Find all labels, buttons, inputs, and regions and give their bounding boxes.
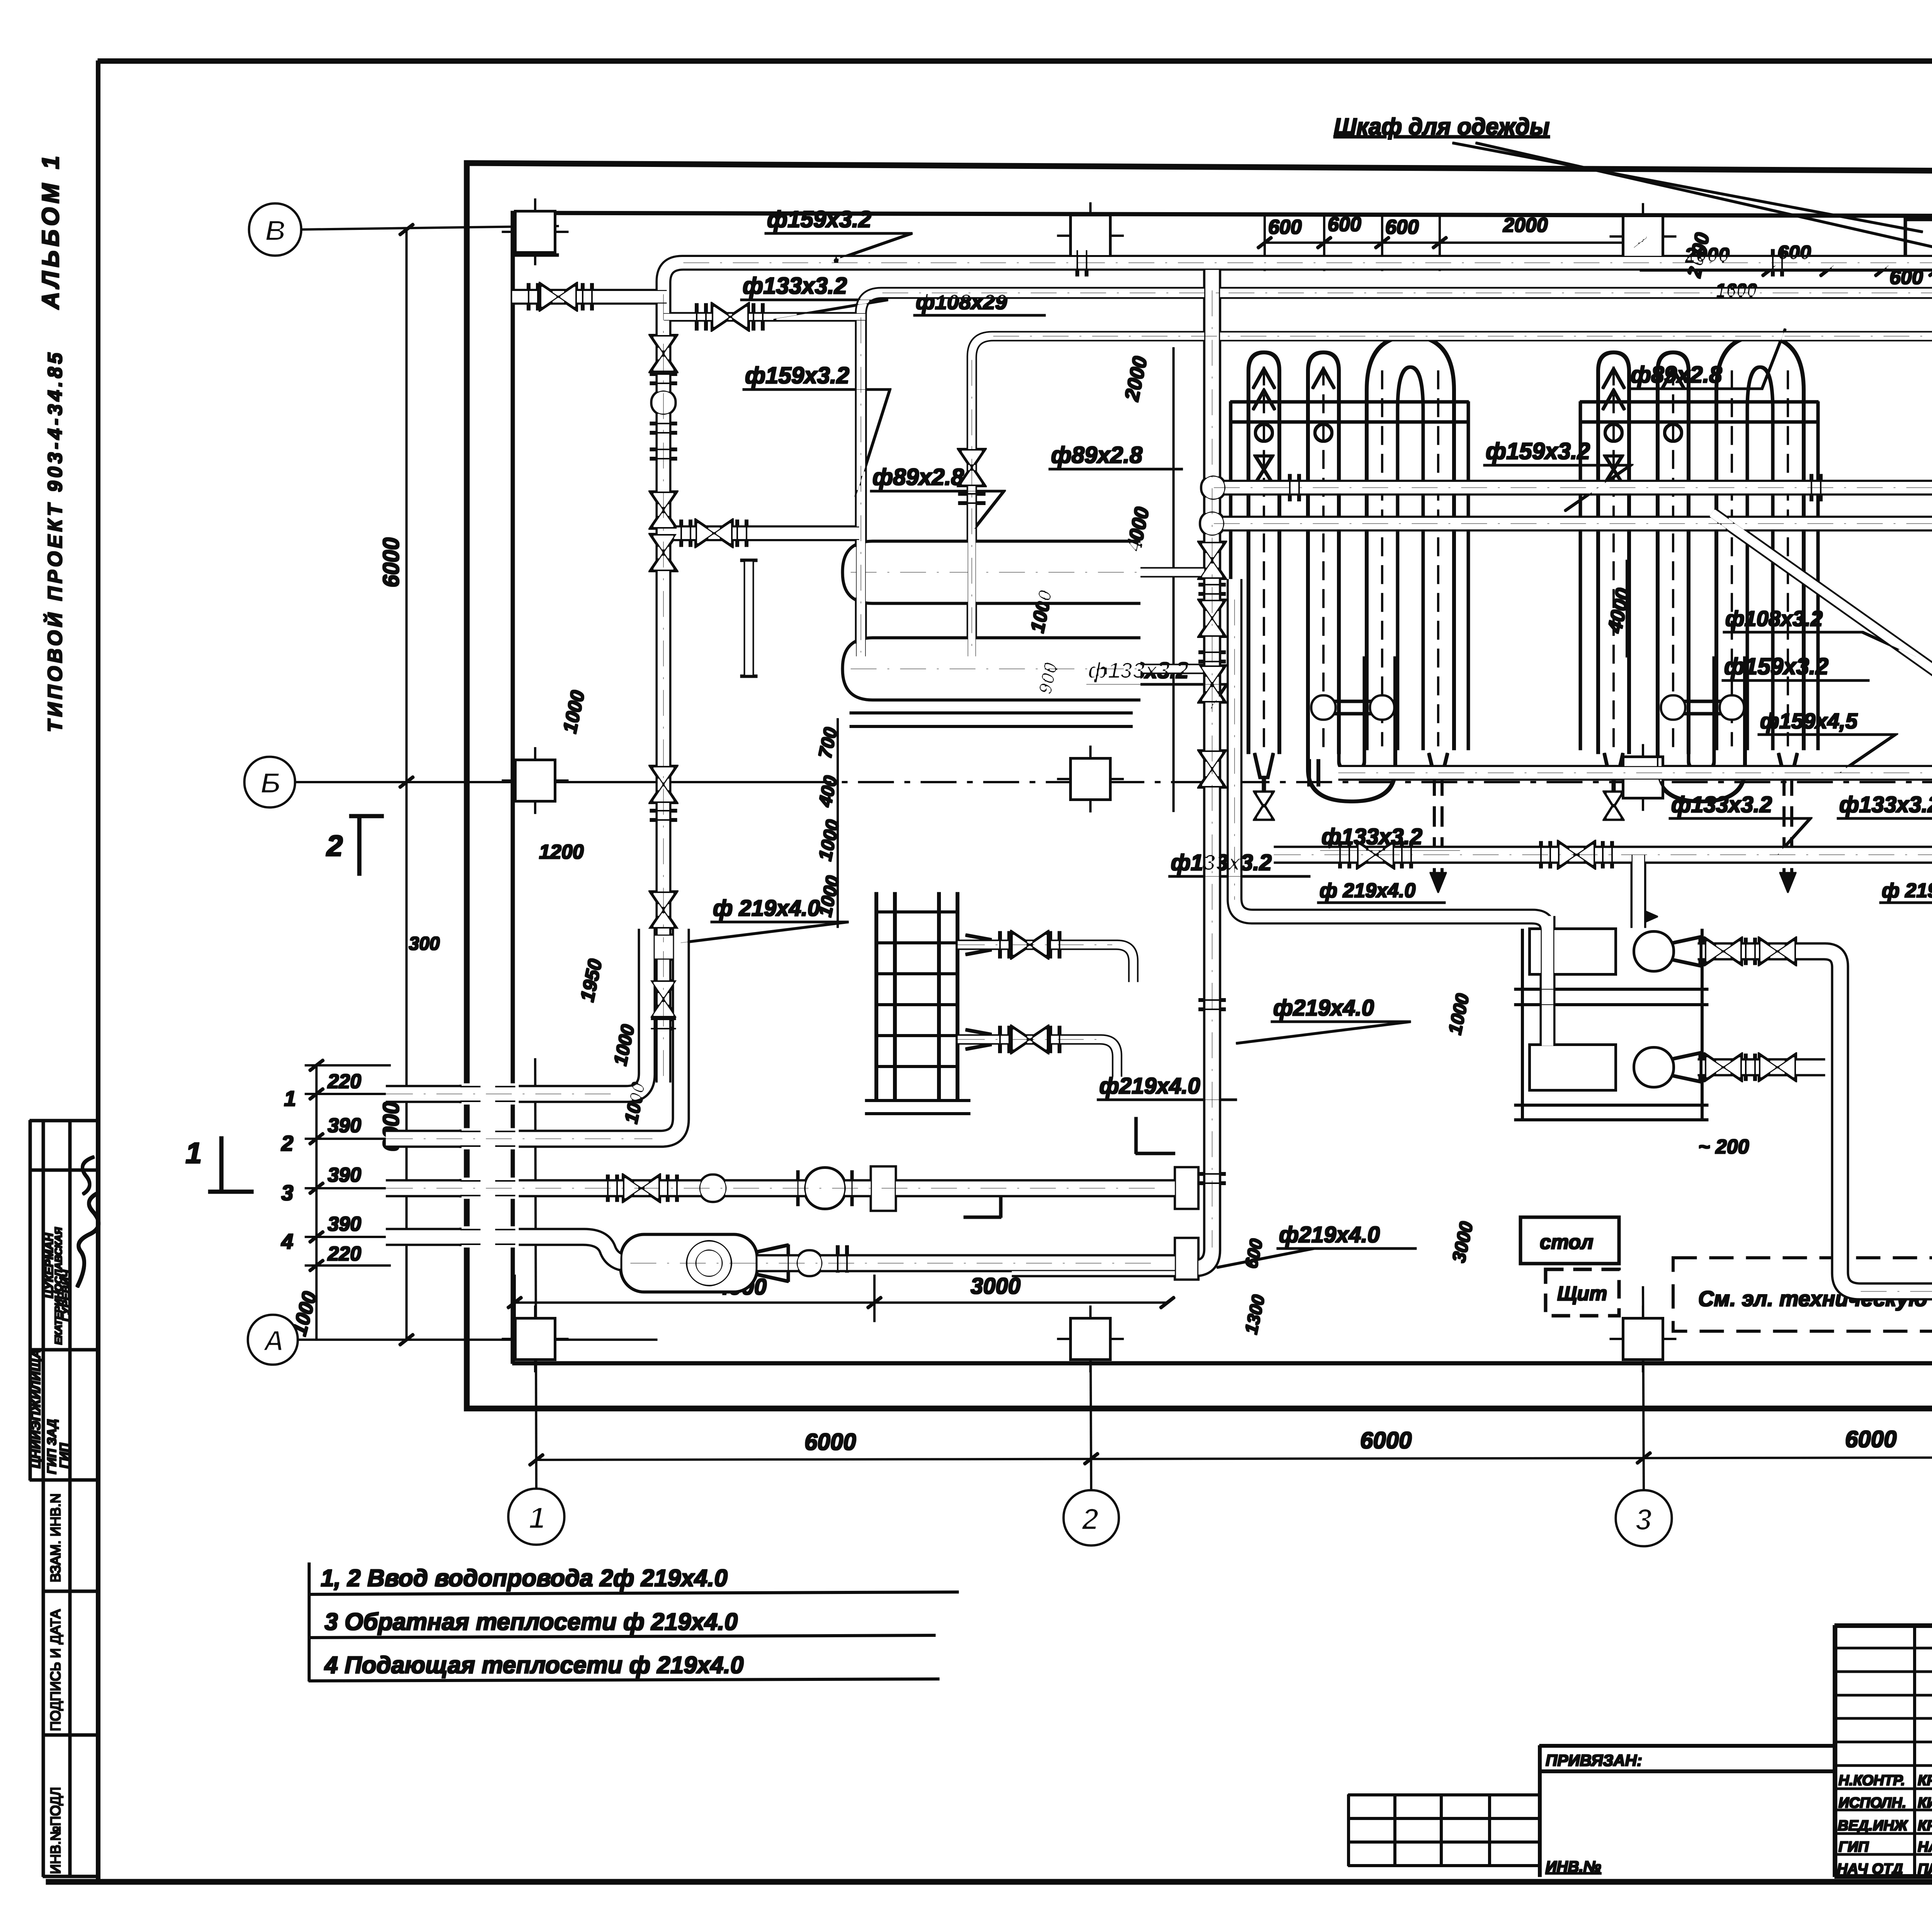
svg-text:600: 600	[1385, 216, 1419, 238]
svg-text:Н.КОНТР.: Н.КОНТР.	[1838, 1772, 1905, 1789]
pipe: shell connector 2	[1140, 664, 1207, 674]
svg-text:ГИП: ГИП	[57, 1442, 71, 1468]
section mark 2 top	[350, 815, 383, 875]
svg-text:ф159х3.2: ф159х3.2	[1724, 653, 1828, 679]
pipe: f108 riser + run 2 + right descent	[861, 293, 1932, 657]
svg-text:ГИП ЗАД: ГИП ЗАД	[45, 1419, 59, 1474]
pipe: f89 riser + run 3 + right descent	[972, 336, 1932, 657]
svg-text:ПОДПИСЬ И ДАТА: ПОДПИСЬ И ДАТА	[48, 1609, 63, 1731]
heater shell 1	[843, 542, 1140, 603]
svg-text:ф159х4,5: ф159х4,5	[1760, 709, 1858, 733]
svg-text:6000: 6000	[1845, 1426, 1896, 1452]
pipe: branch 820	[663, 313, 865, 321]
wall crossing dashes on entry rows	[460, 1084, 522, 1247]
axis circle 1	[509, 1489, 564, 1544]
svg-text:ф89х2.8: ф89х2.8	[872, 464, 964, 490]
svg-text:1: 1	[529, 1501, 545, 1535]
small left table	[1349, 1795, 1540, 1866]
svg-text:4: 4	[281, 1229, 293, 1254]
column A2	[1058, 1306, 1123, 1372]
heat exchanger bank 2	[1580, 336, 1818, 893]
svg-text:ПЛАТОНОВ: ПЛАТОНОВ	[1918, 1861, 1932, 1877]
svg-text:3: 3	[1635, 1502, 1652, 1536]
pipe: entry row 2	[386, 929, 681, 1139]
svg-text:3000: 3000	[971, 1274, 1020, 1299]
svg-text:2000: 2000	[1503, 214, 1548, 236]
svg-text:ИНВ.№: ИНВ.№	[1546, 1858, 1601, 1875]
svg-text:АЛЬБОМ 1: АЛЬБОМ 1	[37, 152, 64, 310]
axis circle V	[250, 204, 301, 255]
svg-text:390: 390	[328, 1213, 361, 1235]
pipe: diagonal	[1713, 513, 1932, 797]
svg-text:ф159х3.2: ф159х3.2	[745, 362, 849, 388]
svg-text:220: 220	[327, 1243, 361, 1265]
pipe: pump row 2	[1698, 1059, 1825, 1076]
sidebar stamp table frame	[30, 1121, 98, 1876]
svg-text:ф133х3.2: ф133х3.2	[1839, 792, 1932, 817]
svg-text:ф219х4.0: ф219х4.0	[1099, 1073, 1200, 1099]
svg-text:1: 1	[284, 1086, 296, 1111]
svg-text:ф219х4.0: ф219х4.0	[1279, 1222, 1380, 1247]
column B3	[1610, 745, 1676, 810]
svg-text:ПРИВЯЗАН:: ПРИВЯЗАН:	[1546, 1751, 1642, 1769]
wardrobe cabinet 1	[1905, 219, 1932, 261]
corner marks	[964, 1118, 1175, 1217]
svg-text:ф133х3.2: ф133х3.2	[1671, 792, 1772, 817]
svg-text:3 Обратная теплосети ф 219х4: 3 Обратная теплосети ф 219х4.0	[325, 1609, 738, 1635]
svg-text:ф219х4.0: ф219х4.0	[1273, 995, 1374, 1021]
svg-text:600: 600	[1777, 242, 1811, 264]
svg-text:2: 2	[326, 830, 343, 862]
dim 2000 600x3 top right row	[1640, 270, 1932, 271]
axis circle 3	[1616, 1491, 1671, 1546]
svg-text:ф159х3.2: ф159х3.2	[1486, 438, 1590, 464]
svg-text:КРУТИКОВА: КРУТИКОВА	[1918, 1818, 1932, 1834]
wardrobe leaders	[1453, 143, 1932, 255]
svg-text:В: В	[265, 214, 286, 247]
svg-text:300: 300	[409, 934, 440, 954]
pipe: mid run 2	[1213, 516, 1932, 531]
svg-text:КРУТИКОВА: КРУТИКОВА	[1918, 1772, 1932, 1789]
section mark 1 bottom-left	[209, 1137, 253, 1193]
axis line A	[297, 1339, 657, 1340]
pipe: run 2212 + right stack	[1274, 855, 1932, 1153]
pump 1 volute	[1634, 932, 1673, 971]
svg-text:стол: стол	[1540, 1231, 1594, 1254]
svg-text:600: 600	[1889, 266, 1923, 289]
svg-text:ф133х3.2: ф133х3.2	[1321, 824, 1422, 849]
column A1	[502, 1306, 568, 1372]
svg-text:ф 219х4.0: ф 219х4.0	[713, 896, 820, 921]
svg-text:ф133х3.2: ф133х3.2	[1171, 850, 1272, 875]
inner wall	[513, 172, 1932, 1363]
column V3	[1610, 204, 1676, 269]
axis line 2 vertical	[1090, 1314, 1091, 1491]
pipe: entry row 3	[386, 1180, 1192, 1197]
svg-text:2: 2	[281, 1131, 293, 1155]
valves on pump rows	[1706, 939, 1741, 963]
svg-text:ВЕД.ИНЖ: ВЕД.ИНЖ	[1838, 1818, 1908, 1834]
svg-text:ГУРЕВИЧ: ГУРЕВИЧ	[60, 1269, 72, 1322]
axis line B horizontal	[294, 782, 796, 783]
svg-text:1600: 1600	[1716, 281, 1757, 301]
electro area dashed box	[1673, 1258, 1932, 1331]
svg-text:2: 2	[1081, 1502, 1099, 1536]
svg-text:А: А	[263, 1325, 284, 1357]
vertical dim line 6000x2	[406, 230, 407, 1340]
valve on wall stub	[541, 285, 576, 309]
svg-text:ф89х2.8: ф89х2.8	[1631, 362, 1722, 388]
svg-text:ЦНИИЭПЖИЛИЩА: ЦНИИЭПЖИЛИЩА	[29, 1349, 43, 1468]
top-left wall jog	[513, 213, 558, 255]
svg-text:ф159х3.2: ф159х3.2	[767, 206, 871, 232]
svg-text:НАРЦИССОВА: НАРЦИССОВА	[1918, 1839, 1932, 1855]
pipe: left wall stub	[513, 289, 667, 304]
svg-text:3: 3	[281, 1180, 293, 1205]
elevator ladder frame	[876, 893, 957, 1101]
left pipe entry dim column	[305, 1065, 390, 1340]
svg-text:Б: Б	[260, 767, 281, 799]
stol table box	[1520, 1217, 1619, 1264]
valves on left riser 1	[651, 336, 675, 371]
heater shell 2 fins	[896, 641, 1119, 697]
valves on elevator branches	[1000, 932, 1009, 958]
svg-text:ИНВ.№ПОДЛ: ИНВ.№ПОДЛ	[48, 1787, 63, 1874]
pipe: shell connector 1	[1140, 568, 1207, 577]
sheet top border	[98, 59, 1932, 63]
sheet bottom border	[46, 1880, 1932, 1884]
column V2	[1058, 203, 1123, 269]
svg-text:ф108х29: ф108х29	[916, 289, 1007, 314]
pipe: bank bottom run	[1339, 765, 1932, 780]
column B1	[502, 748, 568, 813]
pipe: left riser + top run 1 + right descent	[663, 263, 1932, 947]
pump 2 motor	[1530, 1045, 1615, 1090]
svg-text:600: 600	[1268, 216, 1302, 238]
svg-text:ВЗАМ. ИНВ.N: ВЗАМ. ИНВ.N	[48, 1493, 63, 1582]
pipe: pump row 1	[1698, 951, 1932, 1291]
pipe: entry row 1	[386, 929, 647, 1094]
svg-text:390: 390	[328, 1114, 361, 1137]
pipe: center tall riser	[1012, 270, 1212, 1268]
svg-text:НАЧ ОТД: НАЧ ОТД	[1837, 1861, 1903, 1877]
pump suction drop 1	[1532, 917, 1548, 1045]
column V1	[502, 199, 568, 265]
column A3	[1610, 1306, 1676, 1372]
valves on branches	[713, 305, 748, 329]
heater shell 1 fins	[896, 544, 1119, 600]
svg-text:6000: 6000	[379, 538, 404, 587]
privyazan box	[1540, 1746, 1835, 1876]
pump 1 motor	[1530, 929, 1615, 974]
valves on center risers	[1200, 543, 1224, 578]
dim 4000 3000 under plan	[515, 1275, 1167, 1322]
svg-text:1, 2 Ввод водопровода 2ф 219х: 1, 2 Ввод водопровода 2ф 219х4.0	[321, 1565, 728, 1592]
svg-text:ф133х3.2: ф133х3.2	[743, 273, 847, 299]
heater shell 2	[843, 638, 1140, 699]
svg-text:600: 600	[1328, 213, 1361, 236]
svg-text:4 Подающая теплосети ф 219х4.: 4 Подающая теплосети ф 219х4.0	[324, 1652, 743, 1679]
svg-text:ИСПОЛН.: ИСПОЛН.	[1838, 1795, 1906, 1811]
sheet left border	[97, 61, 100, 1882]
pipe: mid run 1	[1213, 480, 1932, 495]
pipe: center riser 2 to pump header	[1235, 580, 1532, 917]
svg-text:ф89х2.8: ф89х2.8	[1051, 442, 1143, 468]
svg-text:1: 1	[185, 1137, 202, 1170]
outer wall	[467, 163, 1932, 1408]
svg-text:390: 390	[328, 1164, 361, 1186]
stamp signature scribbles	[77, 1193, 99, 1287]
pipe: entry row 4 with s-bend	[386, 1237, 1192, 1263]
svg-text:Щит: Щит	[1557, 1283, 1607, 1305]
centerline dots on runs	[386, 263, 1932, 1291]
svg-text:ТИПОВОЙ ПРОЕКТ 903-4-34.85: ТИПОВОЙ ПРОЕКТ 903-4-34.85	[43, 350, 66, 732]
riser extension to entry elbows	[656, 939, 671, 1082]
dim 600x3 2000 top left row	[1265, 216, 1640, 270]
pump frame	[1515, 929, 1708, 1120]
svg-text:КИСЕЛЕВА: КИСЕЛЕВА	[1918, 1795, 1932, 1811]
heater stub pipe	[744, 562, 753, 674]
axis circle A	[248, 1315, 297, 1364]
row4 filter body	[621, 1235, 757, 1291]
heat exchanger bank 1	[1231, 336, 1468, 893]
pipe: branch 1380	[663, 526, 860, 541]
valves on riser lower	[651, 892, 675, 928]
axis line 1 vertical	[535, 1059, 536, 1489]
axis circle B	[245, 757, 294, 807]
elevator branch 1	[958, 945, 1133, 981]
column B2	[1058, 746, 1123, 812]
schit dashed box	[1546, 1269, 1619, 1316]
svg-text:ГИП: ГИП	[1838, 1839, 1869, 1855]
svg-text:220: 220	[327, 1070, 361, 1093]
pump 2 volute	[1634, 1048, 1673, 1087]
svg-text:ф 219х4.0: ф 219х4.0	[1882, 879, 1932, 902]
valve on run 2212	[1358, 843, 1393, 867]
signature grid rows	[1835, 1648, 1932, 1854]
bottom notes left rule	[308, 1563, 310, 1681]
svg-text:6000: 6000	[1360, 1427, 1412, 1453]
title block outer frame	[1835, 1626, 1932, 1876]
svg-text:ф 219х4.0: ф 219х4.0	[1320, 879, 1416, 902]
flange box on riser	[642, 935, 684, 959]
svg-text:~ 200: ~ 200	[1698, 1136, 1749, 1158]
arrow on pump header	[1638, 908, 1658, 925]
svg-text:ф108х3.2: ф108х3.2	[1725, 606, 1823, 631]
svg-text:1200: 1200	[539, 841, 584, 863]
heater support frame	[850, 713, 1132, 726]
pump suction from run 2212	[1631, 855, 1646, 927]
axis line V	[301, 226, 558, 230]
axis line 3 vertical	[1643, 1287, 1644, 1491]
row3 entry valve assembly	[624, 1176, 659, 1200]
svg-text:Шкаф для одежды: Шкаф для одежды	[1334, 114, 1549, 139]
axis circle 2	[1064, 1491, 1118, 1545]
signature grid columns	[1915, 1626, 1932, 1876]
svg-text:6000: 6000	[804, 1429, 856, 1455]
elevator branch 2	[958, 1039, 1117, 1076]
bottom dim line 6000x3	[536, 1457, 1932, 1460]
